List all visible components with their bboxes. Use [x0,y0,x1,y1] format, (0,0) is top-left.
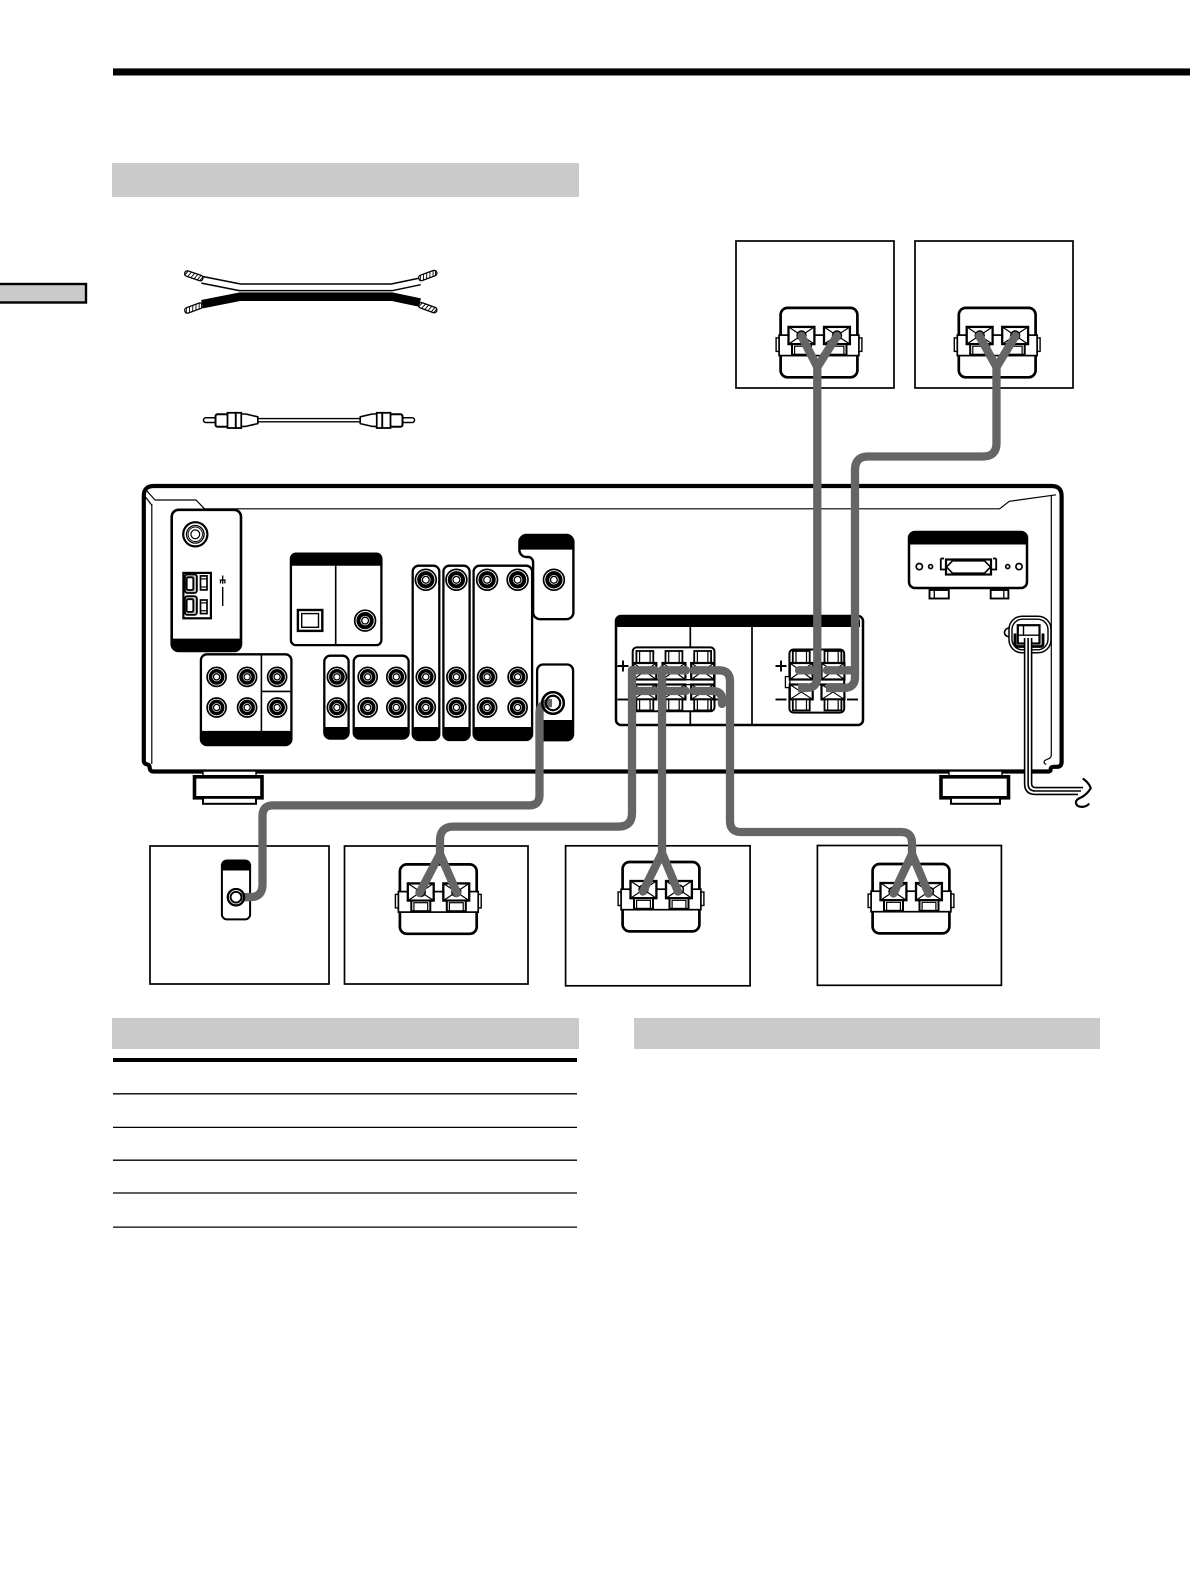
table rules [113,1060,577,1227]
wire: top-left speaker to receiver [802,336,838,367]
video strip 2 [443,566,469,740]
right RCA plug [360,413,414,428]
stripped end upper-left [184,270,204,281]
wire: receiver to bottom speaker 4 [694,670,912,857]
bottom speaker box 2 [345,846,529,984]
audio cord illustration [204,413,415,428]
left inner edge [151,504,153,764]
terminal plate box 3 [618,862,704,931]
right group plate [789,650,844,713]
ac outlet module [909,532,1027,599]
bottom speaker box 3 [566,846,751,986]
wire: top-right speaker to receiver [979,336,1015,367]
polarity signs [618,661,859,700]
bottom-left section gray band [112,1018,579,1049]
bottom-right section gray band [634,1018,1100,1049]
speaker terminal block [616,616,863,725]
front speaker box top-right [915,241,1073,388]
FM coax antenna jack [183,522,207,546]
left RCA plug [204,413,258,428]
receiver left foot [195,771,263,804]
ground symbol [220,576,226,584]
wire: receiver to bottom speaker 2 [632,670,655,691]
monitor out block (notched) [519,535,573,619]
black conductor [202,297,420,305]
stripped end lower-left [184,302,204,314]
AM antenna terminal block [183,573,211,618]
ac cord clip [1005,616,1052,653]
section title band [112,163,579,197]
tape strip (single column) [324,656,348,739]
video strip 1 [413,566,440,740]
ac power cord [1025,638,1083,794]
speaker cord illustration [184,270,438,314]
stripped end lower-right [418,302,438,314]
bottom speaker box 4 [817,846,1001,986]
terminal plate box 4 [868,864,954,933]
stripped end upper-right [418,270,438,282]
terminal plate box 2 [395,864,481,933]
sub woofer box [150,846,329,984]
cable line [256,419,362,422]
jack rings redrawn over wire ends [228,692,564,905]
receiver right foot [941,771,1009,804]
wire: receiver to bottom speaker 3 [662,670,686,691]
wire: receiver sub woofer out to sub woofer box [241,703,552,897]
top/left bevel lines [146,491,1057,509]
terminal plate speaker L [776,308,862,377]
receiver body outline [144,486,1062,772]
white conductor [202,280,420,288]
md/tape jack group (2 col) [354,656,409,739]
sub woofer out block [537,665,573,741]
left margin page tab [0,284,86,303]
terminal plate speaker R [954,308,1040,377]
phono/cd jack group [201,654,292,745]
right inner edge with notch [1044,496,1051,765]
top rule bar [113,68,1190,75]
antenna block [172,510,241,651]
front speaker box top-left [736,241,894,388]
left group plate [633,647,715,711]
ac cord arrow [1076,779,1091,807]
video strip 3 (wide) [474,566,533,740]
module feet tabs [930,590,949,599]
digital in block [291,554,382,645]
